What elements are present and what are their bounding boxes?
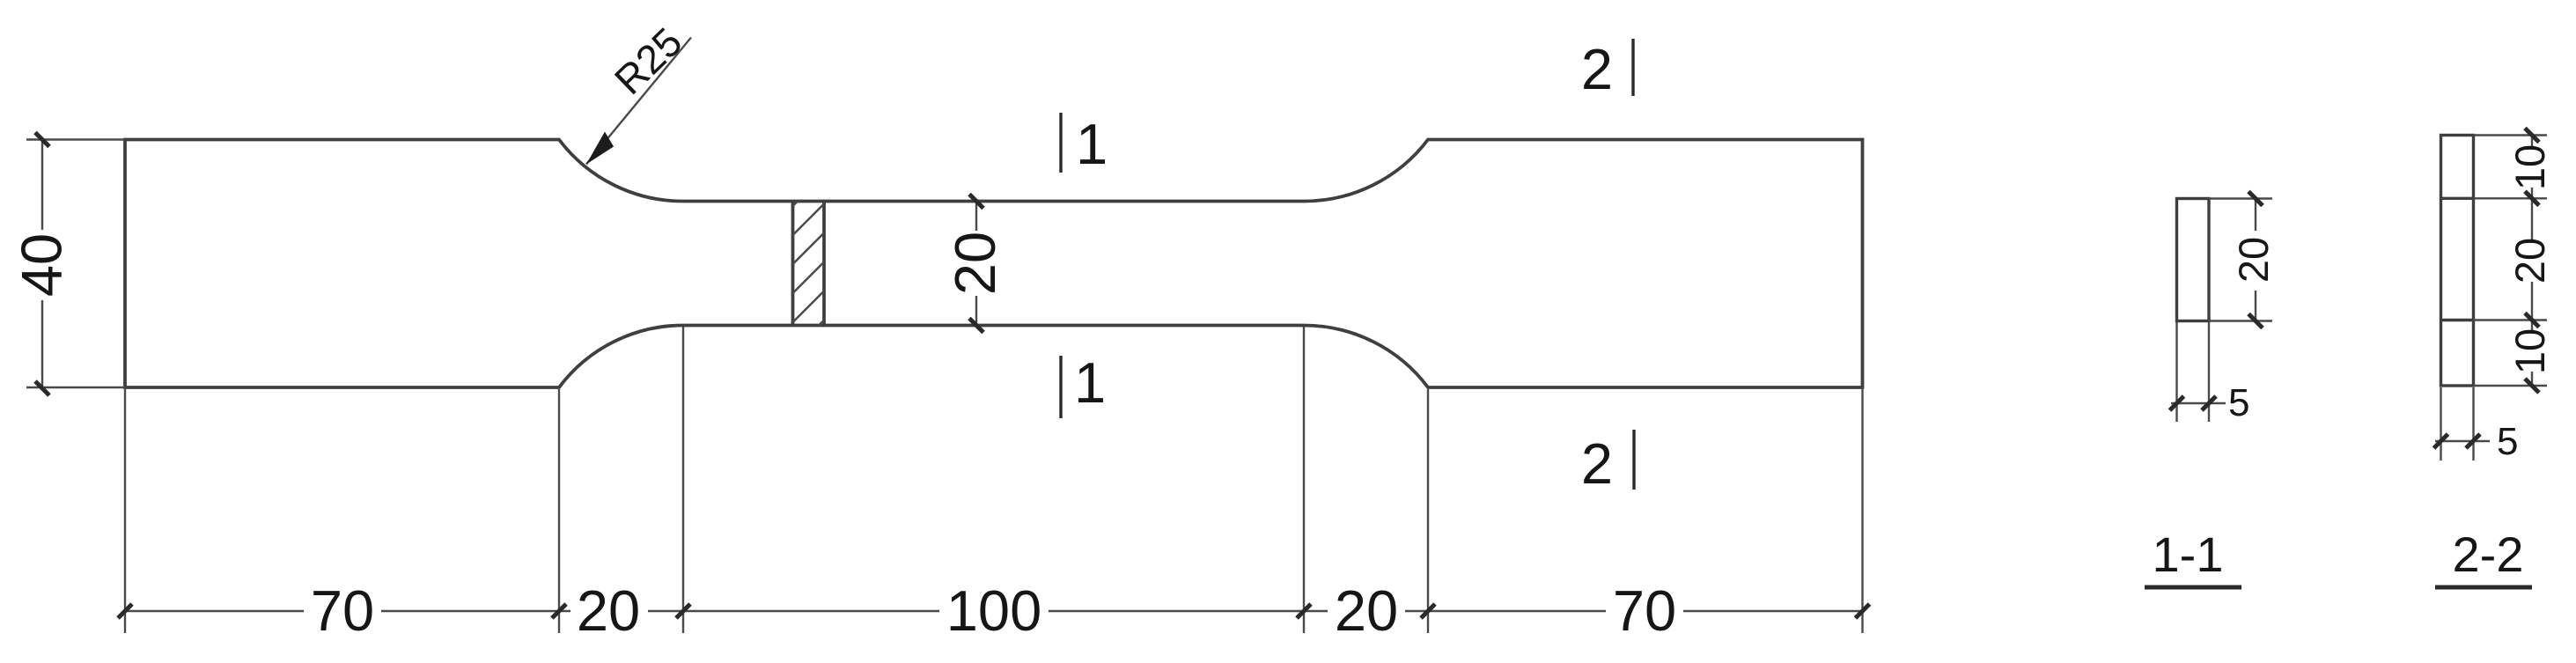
section view 1-1: title underline	[2145, 586, 2241, 590]
section view 1-1: extension and dimension lines	[2171, 199, 2272, 423]
svg-text:20: 20	[2506, 238, 2553, 284]
section view 2-2: upper divider line	[2441, 197, 2474, 200]
svg-text:20: 20	[1335, 578, 1398, 643]
svg-text:10: 10	[2506, 144, 2553, 190]
svg-text:1: 1	[1076, 112, 1108, 176]
section view 2-2: cross-section rectangle 5x40	[2441, 136, 2474, 387]
section view 2-2: title underline	[2435, 586, 2532, 590]
svg-text:70: 70	[311, 578, 374, 643]
svg-text:5: 5	[2228, 381, 2249, 424]
bottom dimension chain: oblique ticks	[118, 604, 1870, 618]
section view 1-1: cross-section rectangle 5x20	[2177, 199, 2210, 321]
svg-text:20: 20	[943, 232, 1007, 295]
svg-text:20: 20	[2230, 237, 2277, 283]
dimension 20 (neck width): dimension line	[975, 202, 977, 326]
radius leader arrowhead	[586, 132, 614, 165]
section marker 2 (bottom): cutting line	[1632, 430, 1635, 490]
section view 1-1: oblique ticks	[2170, 192, 2263, 411]
bottom dimension chain: extension lines	[125, 327, 1863, 633]
svg-text:100: 100	[946, 578, 1041, 643]
section marker 1 (bottom): cutting line	[1059, 356, 1062, 418]
svg-text:2: 2	[1581, 37, 1613, 101]
svg-text:1: 1	[1074, 350, 1106, 415]
dimension 40: oblique ticks	[35, 133, 49, 396]
weld seam band edges	[793, 202, 825, 326]
section marker 1 (top): cutting line	[1059, 113, 1062, 173]
svg-text:20: 20	[577, 578, 640, 643]
svg-text:70: 70	[1613, 578, 1676, 643]
specimen outline (dog-bone tensile specimen, front view, R25 fillets)	[125, 140, 1863, 388]
svg-text:2: 2	[1581, 431, 1613, 496]
section view 2-2: lower divider line	[2441, 319, 2474, 321]
svg-text:10: 10	[2506, 328, 2553, 374]
section view 2-2: extension and dimension lines	[2435, 136, 2547, 461]
dimension 40: extension and dimension lines	[26, 140, 125, 389]
section marker 2 (top): cutting line	[1631, 39, 1634, 96]
svg-text:2-2: 2-2	[2453, 527, 2524, 582]
svg-text:1-1: 1-1	[2153, 527, 2224, 582]
section view 2-2: oblique ticks	[2434, 129, 2540, 449]
radius leader line R25	[586, 38, 691, 165]
dimension 20 (neck width): oblique ticks	[969, 195, 983, 333]
svg-text:5: 5	[2497, 420, 2518, 463]
svg-text:40: 40	[10, 233, 74, 297]
bottom dimension chain: dimension line segments	[125, 610, 1863, 612]
weld seam hatching	[789, 171, 829, 357]
